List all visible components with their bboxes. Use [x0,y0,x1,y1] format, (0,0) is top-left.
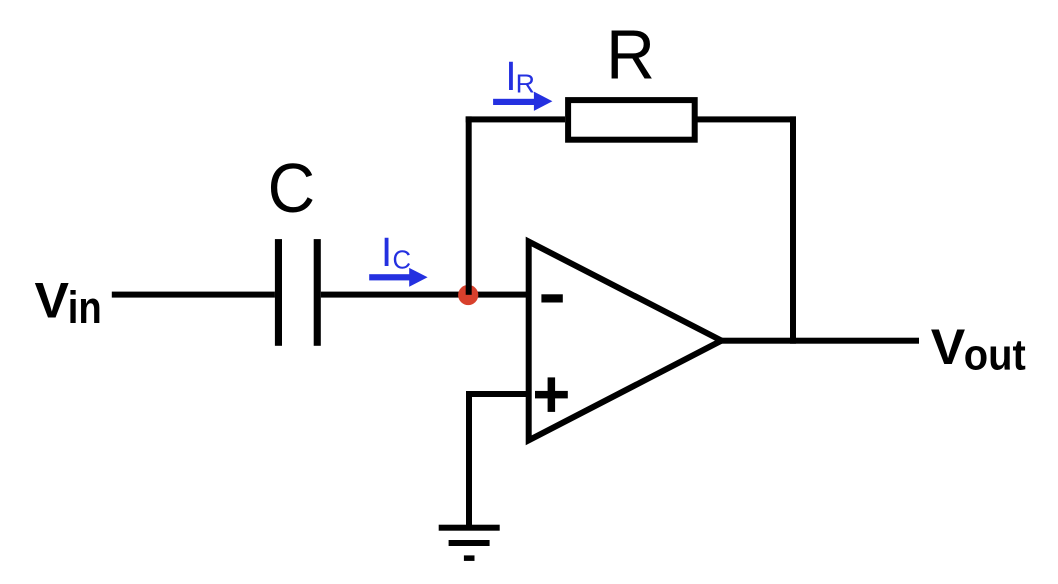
svg-text:V: V [35,273,70,329]
current arrow IR [493,92,552,111]
wire ground drop [466,391,472,528]
current label IC [381,229,411,275]
svg-text:I: I [381,229,392,275]
svg-text:R: R [606,16,655,94]
wire feedback riser left [466,116,472,294]
resistor R [568,100,695,140]
current label IR [505,53,535,99]
capacitor C [275,239,321,346]
svg-text:C: C [393,245,412,275]
wire feedback riser right [790,116,796,343]
svg-text:C: C [268,149,316,227]
svg-text:V: V [931,319,966,375]
wire resistor to right riser [697,116,796,122]
wire non-inverting input [466,391,529,397]
wire capacitor to op-amp inverting input [321,292,529,298]
op-amp inverting input marker [541,294,562,302]
wire top feedback to resistor [466,116,565,122]
op-amp non-inverting input marker [535,377,568,412]
node junction dot [458,285,478,305]
wire Vin to capacitor [112,292,275,298]
svg-text:out: out [964,331,1026,380]
node Vout label [931,319,1026,380]
svg-text:R: R [516,68,535,98]
wire output [718,338,919,344]
node Vin label [35,273,102,333]
op-amp [529,242,722,441]
ground [439,525,500,561]
svg-text:in: in [68,282,102,333]
current arrow IC [369,268,427,287]
